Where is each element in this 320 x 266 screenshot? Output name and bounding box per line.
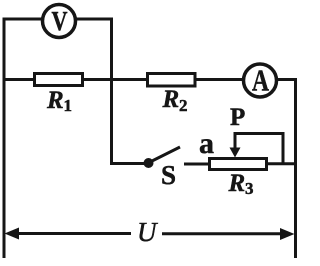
svg-text:A: A [252, 63, 269, 98]
svg-text:S: S [161, 160, 176, 190]
svg-text:R: R [162, 86, 180, 113]
svg-text:P: P [230, 104, 245, 131]
svg-text:2: 2 [179, 96, 188, 115]
svg-text:a: a [199, 127, 214, 160]
svg-text:1: 1 [64, 96, 73, 115]
svg-text:R: R [228, 170, 246, 197]
svg-text:R: R [46, 87, 64, 114]
svg-text:3: 3 [245, 179, 254, 198]
svg-text:U: U [137, 217, 158, 247]
svg-text:V: V [52, 6, 68, 36]
